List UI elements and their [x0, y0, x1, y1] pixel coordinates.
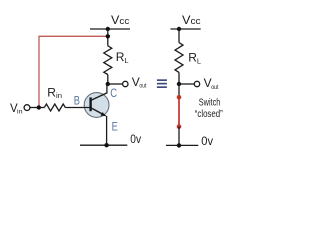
- wire: to Vout terminal (right): [179, 83, 194, 85]
- wire: switch bottom to 0v rail: [178, 127, 180, 146]
- junction: Vout node (right): [177, 82, 181, 86]
- wire: Vout junction to switch top: [178, 84, 180, 97]
- wire: emitter to ground rail: [106, 116, 108, 145]
- svg-text:out: out: [211, 84, 218, 91]
- junction: switch to 0v rail: [177, 143, 181, 147]
- wire: to Vout terminal (left): [108, 83, 123, 85]
- svg-text:Vcc: Vcc: [182, 13, 201, 27]
- terminal: Vin circle: [24, 105, 30, 111]
- svg-text:R: R: [47, 85, 56, 99]
- transistor Q1 base bar: [89, 97, 91, 111]
- wire: right 0v rail: [166, 144, 198, 146]
- svg-text:B: B: [74, 93, 80, 107]
- svg-text:0v: 0v: [130, 132, 141, 146]
- switch contact top (red): [177, 95, 182, 100]
- svg-text:“closed”: “closed”: [195, 109, 223, 120]
- wire: right Vcc rail: [171, 28, 201, 30]
- transistor Q1 body: [84, 93, 109, 118]
- junction: Vout node (left): [106, 82, 110, 86]
- wire: red feedback wire from Vin node to Vcc spine: [39, 36, 108, 106]
- junction: left rail to collector branch: [106, 27, 110, 31]
- junction: red wire to spine: [106, 34, 110, 38]
- terminal: Vout circle (left): [123, 81, 128, 86]
- wire: left spine rail to RL: [107, 29, 109, 46]
- wire: collector stub: [106, 84, 108, 93]
- equivalence symbol: [157, 79, 167, 88]
- resistor Rin: [44, 104, 65, 111]
- switch closed red wire: [178, 97, 180, 126]
- svg-text:E: E: [112, 120, 118, 134]
- junction: Vin node with red wire: [37, 105, 41, 109]
- svg-text:Vcc: Vcc: [111, 13, 130, 27]
- svg-text:out: out: [139, 82, 146, 89]
- wire: RL to Vout junction (right): [178, 72, 180, 84]
- transistor Q1 emitter arrow: [100, 112, 106, 116]
- svg-text:Switch: Switch: [199, 97, 221, 108]
- svg-text:in: in: [17, 109, 23, 116]
- resistor RL (right): [175, 43, 183, 73]
- transistor Q1 emitter diagonal: [91, 108, 106, 116]
- terminal: Vout circle (right): [194, 81, 199, 86]
- svg-text:0v: 0v: [201, 134, 213, 148]
- wire: Rin to base: [65, 107, 91, 109]
- wire: right rail to RL: [178, 29, 180, 43]
- junction: emitter to 0v rail: [104, 143, 108, 147]
- wire: RL to Vout junction (left): [107, 75, 109, 85]
- transistor Q1 collector diagonal: [91, 93, 107, 101]
- svg-text:in: in: [56, 93, 62, 100]
- resistor RL (left): [104, 46, 112, 75]
- wire: left Vcc rail: [90, 28, 130, 30]
- wire: Vin terminal to junction: [30, 107, 44, 109]
- wire: left 0v rail: [80, 144, 127, 146]
- junction: right rail: [177, 27, 181, 31]
- switch contact bottom (red): [177, 124, 182, 129]
- svg-text:C: C: [110, 86, 117, 100]
